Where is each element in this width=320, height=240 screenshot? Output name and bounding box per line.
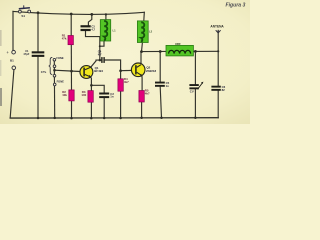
wire L2 top from rail corner xyxy=(143,12,146,21)
inductor L1 xyxy=(100,20,116,41)
wire R5 to bus xyxy=(141,102,143,118)
svg-text:4,7: 4,7 xyxy=(98,52,102,56)
svg-text:L1: L1 xyxy=(113,29,117,33)
svg-text:4,7: 4,7 xyxy=(91,28,95,32)
wire L1 bottom stub xyxy=(100,41,104,46)
wire choke to antenna node xyxy=(193,50,218,52)
antenna xyxy=(210,24,224,33)
svg-text:ANTENA: ANTENA xyxy=(210,24,224,28)
svg-text:4k7: 4k7 xyxy=(145,91,150,95)
wire R4 upper lead xyxy=(120,71,122,79)
capacitor C3 xyxy=(81,25,96,32)
wire R1 column upper xyxy=(70,14,72,36)
capacitor C6 xyxy=(211,85,225,92)
junction node-C5 xyxy=(159,50,162,53)
wire C6 upper lead xyxy=(217,51,219,85)
junction tank-L1 xyxy=(99,45,101,47)
junction antenna node xyxy=(217,50,219,52)
svg-text:47k: 47k xyxy=(62,37,67,41)
svg-text:Figura 3: Figura 3 xyxy=(226,3,246,9)
resistor R4 xyxy=(118,77,129,91)
junction bus-C1 xyxy=(37,117,40,120)
wire C6 to bus corner xyxy=(217,91,219,118)
resistor R1 xyxy=(62,34,74,45)
svg-text:47µF: 47µF xyxy=(23,52,29,56)
wire R4 to bus xyxy=(120,91,122,118)
inductor L2 xyxy=(137,21,152,43)
svg-text:L2: L2 xyxy=(149,30,153,34)
junction rail-C1 xyxy=(37,11,40,14)
junction collector Q2 xyxy=(140,50,143,53)
wire antenna stem xyxy=(217,31,219,52)
junction rail-C3 xyxy=(90,13,93,16)
resistor R2 xyxy=(62,90,74,101)
capacitor C2 xyxy=(99,92,114,99)
junction bus-CTs xyxy=(53,117,56,120)
resistor R3 xyxy=(81,90,93,102)
wire top rail xyxy=(13,11,144,14)
wire Q2 emitter xyxy=(141,76,143,91)
svg-text:XRF: XRF xyxy=(175,42,181,46)
junction CTs-base xyxy=(53,69,56,72)
ground bus xyxy=(10,117,218,119)
wire CV trimmer upper lead xyxy=(194,51,196,84)
wire R2 to bus xyxy=(71,101,73,118)
wire L2 bottom to collector node xyxy=(141,43,144,52)
transistor Q2 2N2218 xyxy=(131,63,156,77)
svg-text:CTs: CTs xyxy=(41,70,47,74)
battery B1 terminals xyxy=(6,50,15,69)
wire B1 negative to ground bus xyxy=(10,70,14,118)
svg-text:100: 100 xyxy=(81,93,86,97)
wire mic column xyxy=(53,60,55,118)
junction tank-collector xyxy=(99,59,102,62)
wire C5 upper lead xyxy=(159,52,161,82)
wire C2 to bus xyxy=(103,98,105,118)
junction bus-CV xyxy=(194,116,197,119)
junction bus-R5 xyxy=(140,117,143,120)
capacitor C1 47uF xyxy=(23,49,44,57)
wire L1 top stub xyxy=(105,14,107,19)
wire C1 branch lower xyxy=(37,57,39,118)
wire base of Q1 xyxy=(55,70,84,72)
svg-text:BF494: BF494 xyxy=(94,69,103,73)
capacitor C4 xyxy=(98,50,105,63)
junction bus-R3 xyxy=(90,117,93,120)
resistor R5 xyxy=(139,88,150,102)
junction node-CV xyxy=(194,50,197,53)
wire R3 to bus xyxy=(90,102,92,118)
svg-text:82: 82 xyxy=(222,88,226,92)
trimmer CV xyxy=(189,82,203,94)
wire C3 lead from rail xyxy=(88,14,91,25)
junction base-R1R2 xyxy=(70,70,73,73)
wire C1 branch upper xyxy=(37,13,39,52)
junction bus-R4 xyxy=(119,117,122,120)
junction bus-C2 xyxy=(103,117,106,120)
junction bus-C5 xyxy=(160,117,163,120)
junction rail-L1 xyxy=(105,13,107,15)
RF choke XRF xyxy=(166,42,193,56)
wire C4 to Q2 base xyxy=(105,60,131,71)
scan smudge left edge xyxy=(0,30,2,46)
wire B1 positive lead xyxy=(12,11,14,50)
svg-text:FONE: FONE xyxy=(56,56,63,60)
svg-text:B1: B1 xyxy=(10,58,14,62)
junction emitter Q1 xyxy=(90,84,93,87)
svg-text:4k7: 4k7 xyxy=(124,80,129,84)
svg-text:FONE: FONE xyxy=(57,80,64,84)
wire CV trimmer to bus xyxy=(194,89,196,117)
svg-text:1n: 1n xyxy=(166,84,170,88)
wire C5 to bus xyxy=(160,87,161,118)
wire collector node to choke xyxy=(142,50,167,52)
wire Q1 collector xyxy=(91,60,102,67)
wire Q1 emitter xyxy=(90,77,91,91)
capacitor C5 xyxy=(155,81,170,88)
wire Q1 emitter to C2 xyxy=(91,85,104,92)
wire R1 to base node and R2 xyxy=(70,45,72,90)
wire C3 bottom to tank node xyxy=(86,31,100,60)
svg-text:1n: 1n xyxy=(110,95,114,99)
switch S1 xyxy=(19,5,31,18)
wire Q2 collector xyxy=(140,52,142,64)
svg-text:S1: S1 xyxy=(21,14,25,18)
junction rail-R1 xyxy=(70,13,73,16)
svg-text:10k: 10k xyxy=(62,93,67,97)
junction base Q2-R4 xyxy=(119,69,122,72)
svg-text:2N2218: 2N2218 xyxy=(146,69,157,73)
input terminals CTs xyxy=(41,56,64,86)
transistor Q1 BF494 xyxy=(80,66,103,79)
junction bus-R2 xyxy=(70,117,73,120)
svg-text:CV: CV xyxy=(190,90,194,94)
